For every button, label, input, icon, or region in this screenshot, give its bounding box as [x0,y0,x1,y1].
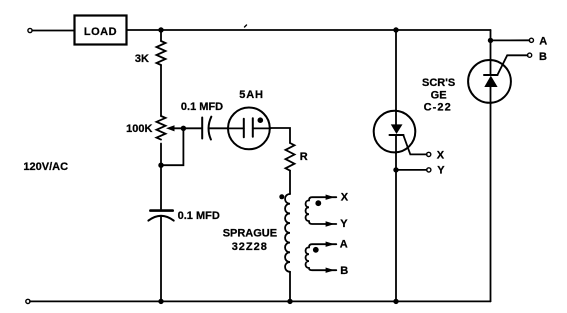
terminal X [427,152,431,156]
primary phasing dot [279,194,284,199]
node junction Y on column [393,167,398,172]
svg-text:R: R [300,151,308,163]
SCR Q2 gate wire to B [497,55,527,75]
wire lamp to R [271,128,290,143]
resistor 3K [157,41,166,65]
svg-text:Y: Y [340,218,348,230]
svg-text:LOAD: LOAD [84,26,117,38]
terminal A [529,38,533,42]
node junction bottom / left SCR column [393,299,398,304]
potentiometer wiper arrow [173,127,183,129]
arrow terminal B [326,268,335,273]
node junction A on right column [488,38,493,43]
terminal Y [427,168,431,172]
capacitor C1 0.1 MFD (horizontal) [201,118,203,139]
wire top rail [161,29,491,31]
node junction bottom / column 1 [158,299,163,304]
svg-text:5AH: 5AH [239,89,263,101]
wire R to transformer primary [289,171,291,194]
svg-text:0.1 MFD: 0.1 MFD [178,210,220,222]
svg-text:120V/AC: 120V/AC [23,161,68,173]
svg-text:GE: GE [431,89,447,101]
svg-text:A: A [539,36,547,48]
load box LOAD [75,16,127,45]
wire to terminal A [491,39,530,41]
wire left SCR column [395,30,397,301]
terminal top-left [28,28,32,32]
transformer secondary winding 1 (X-Y) [306,197,337,224]
svg-text:C-22: C-22 [424,102,452,114]
scan speck [245,25,247,27]
arrow terminal Y [326,221,335,226]
wire 3K to 100K [160,65,162,116]
terminal B [528,53,532,57]
wire C1 to lamp [209,127,227,129]
node junction wiper loop on column [158,163,163,168]
wire right SCR column [490,30,492,301]
wire to terminal Y [396,169,427,171]
node junction wiper [181,126,186,131]
svg-text:X: X [341,192,349,204]
svg-text:100K: 100K [126,123,152,135]
svg-text:0.1 MFD: 0.1 MFD [181,101,223,113]
wire wiper loop down [161,128,183,165]
wire LOAD to top rail [127,29,162,31]
svg-text:A: A [340,239,348,251]
svg-text:SCR'S: SCR'S [422,77,455,89]
transformer T1 primary winding [285,194,290,272]
transformer secondary winding 2 (A-B) [306,244,337,270]
arrow terminal A [326,242,335,247]
potentiometer 100K [157,116,166,140]
terminal bottom-left [26,299,30,303]
wire bottom rail [30,300,491,302]
svg-text:B: B [539,51,547,63]
wire wiper to C1 [183,127,202,129]
capacitor C2 0.1 MFD (vertical) [150,209,172,212]
wire primary to bottom rail [289,272,291,302]
secondary 2 phasing dot [313,247,319,253]
svg-text:SPRAGUE: SPRAGUE [223,227,277,239]
node junction top rail / 3K [158,27,163,32]
SCR Q1 gate wire to X [403,135,426,154]
svg-text:X: X [437,149,445,161]
wire C2 to bottom rail [160,216,162,301]
neon lamp 5AH [228,107,270,149]
node junction bottom / primary [287,299,292,304]
svg-text:B: B [340,265,348,277]
SCR Q2 (right) body [468,60,511,103]
wire 100K to C2 [160,144,162,210]
arrow terminal X [326,195,335,200]
svg-text:32Z28: 32Z28 [232,241,268,253]
SCR Q1 (left) body [374,111,416,153]
node junction top rail / left SCR column [393,27,398,32]
wire top-left to LOAD [32,30,74,32]
secondary 1 phasing dot [315,200,321,206]
svg-text:Y: Y [437,165,445,177]
svg-text:3K: 3K [135,53,149,65]
wire 3K top lead [160,30,162,41]
resistor R [286,143,295,171]
